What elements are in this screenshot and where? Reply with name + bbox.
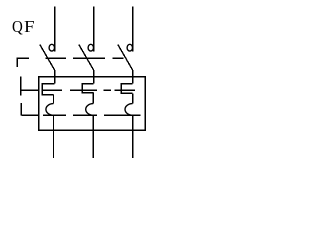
pole 2 fixed contact circle <box>88 44 93 51</box>
pole 1 moving contact blade <box>40 45 55 71</box>
pole 2 thermal release semicircle <box>86 104 94 116</box>
pole 3 overcurrent release notch <box>121 84 132 94</box>
pole 1 fixed contact circle <box>49 44 54 51</box>
pole 3 bottom terminal wire <box>132 115 134 158</box>
linkage dash top-left <box>17 57 29 59</box>
pole 3 fixed contact circle <box>127 44 132 51</box>
pole 3 release-to-thermal wire <box>132 93 134 103</box>
pole 1 blade-to-release stub wire <box>54 70 56 84</box>
release housing box <box>39 77 146 131</box>
trip bar dashed vertical <box>17 58 21 115</box>
linkage dash at pole 3 blade <box>113 57 124 59</box>
trip linkage dashed line bottom <box>21 114 140 116</box>
linkage dash at pole 1 blade <box>46 57 67 59</box>
pole 1 bottom terminal wire <box>53 115 55 158</box>
pole 1 top terminal wire <box>54 6 56 51</box>
pole 2 bottom terminal wire <box>92 115 94 158</box>
pole 2 moving contact blade <box>79 45 94 71</box>
pole 1 release-to-thermal wire <box>53 95 55 104</box>
pole 3 top terminal wire <box>132 6 134 51</box>
pole 2 overcurrent release notch <box>82 84 93 93</box>
release linkage dashed line mid <box>21 89 136 91</box>
pole 3 blade-to-release stub wire <box>132 70 134 84</box>
pole 2 blade-to-release stub wire <box>93 70 95 84</box>
linkage dash at pole 2 blade <box>73 57 105 59</box>
breaker label QF <box>0 0 159 1</box>
pole 3 moving contact blade <box>118 45 133 71</box>
pole 3 thermal release semicircle <box>125 104 133 116</box>
pole 1 thermal release semicircle <box>46 104 54 116</box>
pole 2 top terminal wire <box>93 6 95 51</box>
pole 2 release-to-thermal wire <box>92 93 94 104</box>
pole 1 overcurrent release notch <box>42 84 55 95</box>
